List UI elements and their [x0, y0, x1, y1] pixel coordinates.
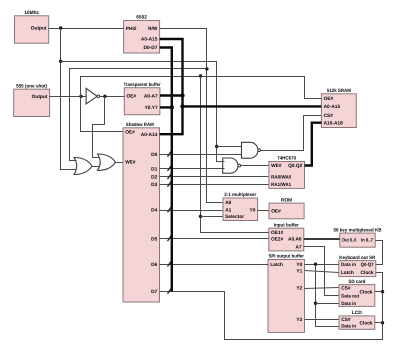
wire clock rail to LCD Clock [375, 322, 383, 324]
junction clock rail at SD Clock [381, 290, 384, 293]
wire inverter output jog to OR G2 top input [93, 97, 105, 158]
memory Shadow RAM [123, 122, 160, 302]
or-gate G1 (left) [74, 158, 92, 175]
wire 555 up and across to SRAM OE# [81, 77, 322, 99]
svg-text:CS#: CS# [341, 286, 351, 292]
bus tap slash D0 [168, 151, 172, 157]
wire clock into NAND G3 input [217, 146, 242, 148]
svg-text:Output: Output [31, 25, 47, 31]
wire SPI Y2 to SD CS# [305, 288, 339, 289]
wire 555 down to Shadow RAM OE# [81, 97, 123, 132]
bus junction TB A0-A7 [180, 93, 184, 97]
wire SPI Y3 to LCD CS# [305, 319, 339, 321]
bus tap slash D1 [168, 165, 172, 171]
bus junction A branch [180, 104, 184, 108]
svg-text:R/W: R/W [148, 26, 158, 32]
bus tap slash D4 [168, 207, 172, 213]
svg-text:Output: Output [32, 94, 48, 100]
wire mux Y0 to ROM OE# [258, 210, 269, 212]
svg-text:A16-A18: A16-A18 [324, 120, 344, 126]
svg-text:Y1: Y1 [296, 268, 302, 274]
buffer U_TB Transparent buffer [124, 82, 161, 115]
wire D6 to SPI Latch [160, 264, 269, 266]
bus tap slash D5 [168, 235, 172, 241]
bus A0-A15 branch to 512k SRAM [183, 105, 322, 107]
mux 2:1 multiplexer [223, 192, 258, 220]
svg-text:SPI output buffer: SPI output buffer [268, 254, 304, 260]
bus Transparent buffer A0-A7 to A bus [160, 94, 183, 96]
junction MOSI at SD Data in [314, 302, 317, 305]
svg-text:PHI2: PHI2 [126, 26, 137, 32]
bus Transparent buffer Y0.Y7 to D bus [160, 106, 172, 108]
wire OR G1 output to OR G2 bottom input [92, 166, 100, 168]
svg-text:10Mhz: 10Mhz [24, 10, 39, 16]
buffer SPI output buffer [268, 254, 305, 333]
svg-text:Y3: Y3 [296, 317, 302, 323]
svg-text:In 0..7: In 0..7 [361, 238, 373, 244]
svg-text:OE1#: OE1# [271, 230, 284, 236]
svg-text:6502: 6502 [136, 15, 147, 21]
svg-text:SD card: SD card [348, 279, 365, 285]
wire clock rail to SD Clock [375, 291, 383, 293]
wire D2 to RA0/WA0 [160, 176, 269, 178]
wire MOSI down to LCD Data in [316, 265, 339, 327]
svg-text:D7: D7 [151, 289, 157, 295]
wire D0 to NAND G3 input [160, 154, 242, 156]
junction MOSI at Y0 [314, 263, 317, 266]
svg-text:Data in: Data in [341, 323, 356, 329]
junction clock rail at LCD Clock [381, 321, 384, 324]
wire clock down-left branch to OR G1 bottom input [61, 29, 77, 170]
wire inverter output to Transparent buffer OE# [100, 96, 125, 98]
svg-text:OE#: OE# [324, 96, 334, 102]
wire D3 to RA1/WA1 [160, 184, 269, 186]
svg-text:A0-A14: A0-A14 [141, 132, 158, 138]
svg-text:Clock: Clock [361, 270, 374, 276]
svg-text:D5: D5 [151, 237, 157, 243]
svg-text:Data out: Data out [341, 293, 359, 299]
svg-text:D3: D3 [151, 182, 157, 188]
wire NAND G4 output to 74HC670 WE# [241, 165, 269, 167]
inverter U_INV [86, 88, 100, 104]
wire clock across top to NAND column [61, 62, 225, 162]
svg-text:LCD: LCD [352, 310, 362, 316]
memory ROM [269, 197, 304, 219]
bus D0-D7 from 6502 down to D7 row [160, 48, 172, 292]
svg-text:D0: D0 [151, 152, 157, 158]
register file 74HC670 [269, 156, 305, 189]
svg-text:Clock: Clock [360, 321, 373, 327]
svg-text:555 (one shot): 555 (one shot) [16, 83, 47, 89]
svg-text:Y2: Y2 [296, 286, 302, 292]
bus Input buffer A0.A6 to KB Out 0..6 [304, 238, 340, 240]
svg-text:A0-A15: A0-A15 [324, 104, 341, 110]
wire R/W to OR G1 top input [70, 69, 207, 161]
svg-text:OE2#: OE2# [271, 237, 284, 243]
svg-text:Shadow RAM: Shadow RAM [126, 122, 154, 128]
bus tap slash D3 [168, 181, 172, 187]
bus A0-A15 from 6502 down to Shadow RAM A0-A14 [160, 39, 183, 134]
svg-text:D6: D6 [151, 262, 157, 268]
wire NAND G3 output to SRAM CS# [261, 116, 322, 151]
peripheral SD card [339, 279, 375, 307]
svg-text:WE#: WE# [125, 160, 136, 166]
svg-text:D2: D2 [151, 175, 157, 181]
svg-text:Clock: Clock [360, 289, 373, 295]
svg-text:Q0-Q7: Q0-Q7 [361, 262, 374, 268]
keyboard 56 key multiplexed KB [334, 227, 383, 247]
wire SPI Y1 to SR Latch [305, 271, 339, 273]
svg-text:A0-A15: A0-A15 [141, 37, 158, 43]
svg-text:A0: A0 [225, 200, 231, 206]
svg-text:Selector: Selector [225, 214, 244, 220]
svg-text:CS#: CS# [324, 113, 334, 119]
svg-text:CS#: CS# [341, 317, 351, 323]
wire Input buffer A7 to SD Data out [304, 247, 339, 296]
junction 555 output [79, 95, 82, 98]
junction clock branch right [59, 60, 62, 63]
svg-text:A1: A1 [225, 208, 231, 214]
svg-text:Transparent buffer: Transparent buffer [124, 82, 161, 88]
svg-text:OE#: OE# [271, 209, 281, 215]
svg-text:74HC670: 74HC670 [277, 156, 296, 162]
timer 555 (one shot) [14, 83, 50, 116]
svg-text:Data in: Data in [341, 301, 356, 307]
wire KB In 0..7 to SR Q0-Q7 [376, 241, 383, 265]
svg-text:D1: D1 [151, 166, 157, 172]
wire into mux Selector [201, 216, 223, 218]
nand-gate G3 (top) [242, 142, 261, 158]
wire MOSI branch to SD Data in [316, 303, 339, 305]
svg-text:WE#: WE# [271, 163, 282, 169]
svg-text:Keyboard out SR: Keyboard out SR [339, 255, 375, 261]
svg-text:Latch: Latch [270, 262, 283, 268]
svg-text:A0-A7: A0-A7 [144, 93, 158, 99]
svg-text:D0-D7: D0-D7 [144, 45, 158, 51]
bus tap slash D6 [168, 261, 172, 267]
memory 512k SRAM [321, 88, 356, 128]
wire 10Mhz output to 6502 PHI2 [49, 28, 124, 30]
cpu 6502 [124, 15, 160, 53]
peripheral LCD [339, 310, 375, 329]
nand-gate G4 (bottom) [223, 158, 241, 173]
svg-text:56 key multiplexed KB: 56 key multiplexed KB [334, 227, 383, 233]
junction inverter output [103, 95, 106, 98]
svg-text:D4: D4 [151, 208, 157, 214]
wire OR G2 output to Shadow RAM WE# [116, 162, 123, 164]
svg-text:OE#: OE# [125, 129, 135, 135]
svg-text:512k SRAM: 512k SRAM [327, 88, 351, 94]
svg-text:Latch: Latch [341, 270, 354, 276]
wire SPI Y0 to SR Data in [305, 264, 339, 266]
junction on 10Mhz output [59, 26, 62, 29]
svg-text:Y0: Y0 [296, 262, 302, 268]
svg-text:Y0.Y7: Y0.Y7 [145, 105, 158, 111]
svg-text:OE#: OE# [127, 93, 137, 99]
shift register Keyboard out SR [339, 255, 376, 277]
svg-text:Y0: Y0 [250, 208, 256, 214]
wire D5 to Input buffer OE2# [160, 238, 269, 240]
svg-text:ROM: ROM [281, 197, 292, 203]
bus junction TB Y0.Y7 [170, 105, 174, 109]
svg-text:RA1/WA1: RA1/WA1 [271, 182, 291, 188]
wire D4 to mux A1 [160, 210, 223, 212]
svg-text:A0.A6: A0.A6 [288, 237, 302, 243]
svg-text:Q0.Q2: Q0.Q2 [288, 163, 302, 169]
wire 555 down to mux Selector and Input buffer OE1# [201, 77, 269, 233]
svg-text:Data in: Data in [341, 262, 356, 268]
wire D7 SPI clock run [160, 273, 383, 340]
oscillator 10Mhz [15, 10, 49, 43]
svg-text:2:1 multiplexer: 2:1 multiplexer [224, 192, 256, 198]
bus tap slash D2 [168, 173, 172, 179]
wire D1 to NAND G4 input [160, 168, 225, 170]
or-gate G2 (right) [98, 154, 116, 171]
svg-text:Out 0..6: Out 0..6 [342, 238, 357, 244]
junction R/W branch [205, 67, 208, 70]
wire 555 output to inverter [50, 96, 87, 98]
junction clock to NAND G3 [215, 145, 218, 148]
bus tap slash D7 [168, 288, 172, 294]
svg-text:Input buffer: Input buffer [274, 222, 299, 228]
junction at mux Selector [199, 215, 202, 218]
svg-text:A7: A7 [295, 244, 301, 250]
svg-text:RA0/WA0: RA0/WA0 [271, 175, 291, 181]
buffer Input buffer [269, 222, 304, 251]
wire R/W from 6502 [160, 29, 223, 203]
bus 74HC670 Q0.Q2 to SRAM A16-A18 [305, 123, 322, 166]
junction 555 branch down [199, 74, 202, 77]
